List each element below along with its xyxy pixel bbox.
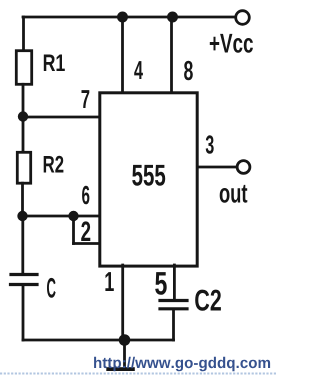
junction node B (R2/C/pin6) (17, 211, 27, 221)
wire: pin 2 trigger into 555 (74, 242, 100, 245)
terminal +Vcc (236, 11, 250, 25)
wire: node B down to capacitor C (21, 216, 24, 273)
terminal out (237, 161, 250, 174)
watermark url text (94, 357, 270, 372)
wire: R2 bottom to node B (21, 183, 24, 216)
wire: pin 1 ground down to bottom rail (121, 265, 124, 340)
wire: R1 bottom to node A (22, 84, 25, 116)
wire: C2 to bottom rail (172, 310, 175, 340)
capacitor C top plate (11, 273, 37, 276)
capacitor C2 top plate (160, 299, 187, 302)
pin number 7 (82, 90, 90, 108)
wire: bottom ground rail (23, 339, 174, 342)
wire: left branch vertical down to R1 (22, 17, 25, 50)
pin number 3 (206, 135, 214, 154)
pin number 8 (184, 61, 193, 81)
ground bar (106, 367, 135, 371)
wire: pin 7 discharge from node A to 555 (23, 116, 99, 119)
pin number 4 (134, 61, 143, 79)
label out (220, 185, 248, 203)
wire: capacitor C to bottom rail (22, 286, 25, 340)
pin number 6 (82, 186, 89, 205)
label 555 (132, 165, 165, 186)
junction: top rail / pin 8 (167, 12, 178, 23)
resistor R1 (16, 51, 31, 85)
wire: pin 2 trigger drop from node C (72, 216, 75, 244)
wire: +Vcc top rail (23, 16, 235, 19)
label R1 (44, 55, 65, 72)
wire: pin 5 control down to C2 (173, 265, 176, 299)
resistor R2 (17, 152, 30, 183)
capacitor C2 bottom plate (160, 307, 187, 310)
label C (47, 278, 56, 298)
decorative bottom rule (0, 373, 276, 375)
capacitor C bottom plate (11, 283, 38, 286)
wire: pin 4 reset up to +Vcc rail (121, 17, 124, 93)
pin number 2 (81, 221, 90, 241)
label C2 (195, 290, 221, 311)
junction node C (pin6/pin2 tie) (68, 211, 78, 221)
wire: pin 3 output to out terminal (198, 166, 238, 169)
wire: pin 6 threshold from node B to 555 (23, 215, 100, 218)
wire: pin 8 Vcc up to +Vcc rail (170, 17, 173, 93)
wire: node A down to R2 (22, 117, 25, 152)
wire: ground stem (123, 340, 126, 367)
junction node A (R1/R2/pin7) (18, 111, 28, 121)
IC U1 555 timer body (100, 93, 197, 266)
label R2 (44, 156, 64, 173)
label +Vcc (210, 34, 253, 53)
pin number 1 (105, 272, 113, 291)
junction: bottom rail / ground (119, 334, 131, 346)
pin number 5 (155, 272, 167, 295)
junction: top rail / pin 4 (117, 12, 128, 23)
